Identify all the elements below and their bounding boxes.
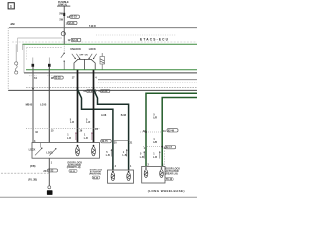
svg-text:L-R: L-R <box>86 121 90 124</box>
svg-text:L-B: L-B <box>123 154 127 157</box>
svg-text:(FRONT LH): (FRONT LH) <box>67 166 81 169</box>
svg-text:62-23: 62-23 <box>72 39 79 42</box>
svg-text:(FRONT RH): (FRONT RH) <box>89 174 101 176</box>
svg-text:5W: 5W <box>59 13 63 16</box>
svg-text:F-22: F-22 <box>48 169 54 172</box>
svg-text:(LONG WHEELBASE): (LONG WHEELBASE) <box>148 189 185 193</box>
svg-text:55-24: 55-24 <box>93 177 99 180</box>
svg-text:L-R: L-R <box>84 137 88 140</box>
svg-text:L-B: L-B <box>106 154 110 157</box>
svg-text:55-10: 55-10 <box>166 178 173 181</box>
svg-text:B-08: B-08 <box>121 114 127 117</box>
svg-text:1X: 1X <box>83 90 86 93</box>
svg-text:LG-B: LG-B <box>40 103 46 106</box>
svg-text:62-17: 62-17 <box>166 146 173 149</box>
svg-text:62-28: 62-28 <box>87 90 94 93</box>
svg-text:(F/B): (F/B) <box>30 165 36 168</box>
svg-text:55-23: 55-23 <box>70 171 76 173</box>
svg-text:2D: 2D <box>43 170 46 173</box>
svg-text:62-23: 62-23 <box>68 22 75 25</box>
svg-text:L-B: L-B <box>153 156 157 159</box>
svg-text:LOCK: LOCK <box>89 48 96 51</box>
svg-text:A-08: A-08 <box>101 114 107 117</box>
svg-text:62-75: 62-75 <box>102 140 109 143</box>
svg-text:L/B: L/B <box>153 141 157 144</box>
svg-text:ETACS-ECU: ETACS-ECU <box>140 38 169 42</box>
svg-text:L-B: L-B <box>140 156 144 159</box>
svg-text:62-25: 62-25 <box>55 77 62 80</box>
svg-text:7A: 7A <box>34 77 37 80</box>
svg-text:MB-B: MB-B <box>26 103 33 106</box>
svg-text:LOCK: LOCK <box>46 151 53 154</box>
svg-text:62-28: 62-28 <box>101 90 108 93</box>
svg-text:62-49: 62-49 <box>168 129 175 132</box>
svg-text:L/R: L/R <box>153 116 157 119</box>
svg-text:1W: 1W <box>59 19 63 22</box>
svg-text:L-R: L-R <box>70 121 74 124</box>
svg-text:(REAR LH): (REAR LH) <box>165 172 177 175</box>
svg-text:62-23: 62-23 <box>71 16 78 19</box>
svg-text:LOCK: LOCK <box>29 148 36 151</box>
svg-text:(F/L 2B): (F/L 2B) <box>28 179 37 182</box>
svg-text:5 W-R: 5 W-R <box>89 25 96 28</box>
svg-text:UNLOCK: UNLOCK <box>70 48 81 51</box>
svg-text:L-R: L-R <box>67 137 71 140</box>
